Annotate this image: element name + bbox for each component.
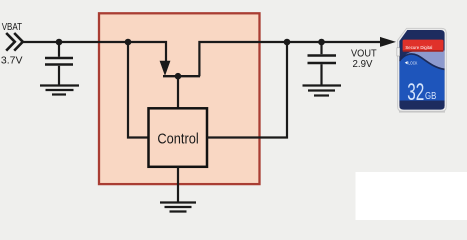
- wire node to Control block left: [128, 42, 149, 138]
- wave outline stroke: [399, 54, 444, 69]
- card outer shell: [398, 28, 447, 111]
- Control block: [149, 108, 208, 167]
- wire Control right to output feedback node: [207, 42, 287, 138]
- write protect slider: [397, 48, 400, 56]
- navy wedge top left below stripe: [399, 51, 419, 62]
- svg-text:GB: GB: [425, 90, 436, 102]
- svg-text:Secure Digital: Secure Digital: [405, 45, 432, 50]
- transistor Q1 emitter arrow: [160, 61, 170, 75]
- ground symbol G1: [40, 86, 79, 95]
- periwinkle band under red stripe: [399, 51, 444, 73]
- svg-text:VBAT: VBAT: [2, 22, 22, 33]
- card shadow: [399, 111, 445, 113]
- node base junction: [175, 73, 182, 80]
- lock icon and LOCK label: [405, 61, 408, 64]
- wire base to Control block top: [177, 76, 179, 108]
- wire C1 to ground: [58, 66, 60, 86]
- svg-text:2.9V: 2.9V: [353, 59, 373, 70]
- white panel bottom right: [356, 172, 467, 220]
- transistor Q1 base bar: [163, 75, 200, 77]
- wire input VBAT to transistor emitter corner: [21, 42, 166, 62]
- capacitor C2: [308, 56, 337, 64]
- node control input junction: [125, 39, 132, 46]
- output arrowhead to SD card: [380, 37, 396, 47]
- SD card photo: [397, 28, 446, 112]
- transistor Q1 collector wire up: [199, 42, 382, 76]
- ground symbol G3: [303, 86, 342, 96]
- input port chevron VBAT: [6, 33, 23, 51]
- card inner navy base: [399, 30, 444, 110]
- svg-text:3.7V: 3.7V: [1, 56, 23, 67]
- wire C2 to ground: [320, 64, 322, 85]
- svg-text:Control: Control: [157, 130, 198, 147]
- bottom navy band: [399, 101, 444, 110]
- svg-text:32: 32: [407, 79, 424, 106]
- capacitor C1: [45, 58, 73, 65]
- wire Control bottom to ground: [177, 167, 179, 203]
- node input cap junction: [56, 39, 63, 46]
- wire junction to capacitor C1: [58, 42, 60, 57]
- wire junction to capacitor C2: [320, 42, 322, 54]
- node output cap junction: [318, 39, 325, 46]
- red stripe Secure Digital: [403, 40, 444, 52]
- node output feedback junction: [284, 39, 291, 46]
- LDO IC boundary box U1: [99, 13, 260, 184]
- blue body wave: [399, 54, 444, 101]
- svg-text:LOCK: LOCK: [408, 61, 417, 66]
- ground symbol G2: [160, 203, 196, 212]
